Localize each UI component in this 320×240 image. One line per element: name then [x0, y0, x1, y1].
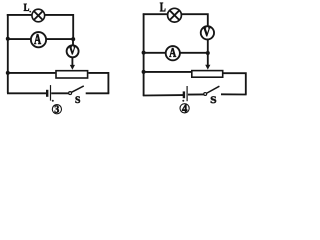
wire bottom left to battery — [143, 94, 183, 96]
wire left vertical — [7, 14, 9, 93]
battery — [184, 86, 187, 101]
wire lamp to right corner, down to voltmeter — [181, 14, 208, 27]
label S — [211, 96, 216, 103]
label L — [24, 4, 29, 11]
switch S — [204, 86, 220, 95]
wire switch to bottom right corner — [86, 92, 110, 94]
node junction left-rheostat — [6, 71, 10, 75]
wire voltmeter to node — [207, 39, 209, 53]
label S — [76, 96, 81, 103]
voltmeter V — [201, 26, 214, 39]
voltmeter V — [67, 45, 79, 57]
speck after L — [29, 11, 31, 13]
wire node to voltmeter — [72, 39, 74, 46]
wire to rheostat left — [144, 71, 192, 73]
label circled 4 — [180, 104, 189, 113]
node junction left-ammeter — [6, 37, 10, 41]
label circled 3 — [52, 105, 61, 114]
wire top row to lamp — [7, 14, 33, 16]
node junction voltmeter-ammeter-wiper — [206, 51, 210, 55]
wire ammeter row left — [8, 38, 32, 40]
node junction left-ammeter — [142, 51, 146, 55]
rheostat — [192, 71, 223, 78]
label L — [160, 3, 165, 12]
wire rheostat right to corner down — [88, 73, 108, 93]
speck above circled 3 — [52, 100, 54, 102]
wire left vertical — [143, 13, 145, 95]
node junction ammeter-lamp-voltmeter — [71, 37, 75, 41]
wiper arrow onto rheostat — [70, 57, 75, 70]
wire top row to lamp — [143, 13, 168, 15]
wire ammeter row right — [179, 52, 207, 54]
ammeter A — [166, 46, 180, 60]
speck above circled 4 — [182, 100, 184, 102]
ammeter A — [31, 32, 46, 47]
lamp L — [168, 8, 182, 22]
lamp L — [32, 9, 45, 22]
wire battery to switch — [51, 92, 68, 94]
wire rheostat right to corner down — [223, 73, 245, 94]
wire battery to switch — [188, 93, 204, 95]
rheostat — [56, 71, 88, 78]
battery — [47, 85, 50, 101]
wire to rheostat left — [8, 72, 56, 74]
wire bottom left to battery — [7, 92, 46, 94]
wire ammeter row right — [46, 38, 74, 40]
switch S — [69, 86, 84, 95]
wiper arrow onto rheostat — [205, 53, 210, 70]
wire switch to bottom right corner — [221, 93, 247, 95]
wire lamp to right corner, down to node — [44, 15, 73, 39]
node junction left-rheostat — [142, 70, 146, 74]
speck after L — [167, 12, 169, 14]
wire ammeter row left — [144, 52, 167, 54]
